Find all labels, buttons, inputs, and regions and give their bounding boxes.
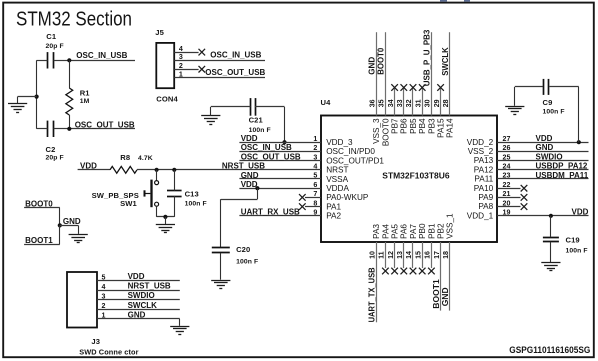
svg-text:OSC_OUT_USB: OSC_OUT_USB <box>205 68 265 77</box>
node BOOT junction <box>58 223 62 227</box>
wire pin 35 <box>385 32 387 115</box>
svg-text:U4: U4 <box>321 98 332 107</box>
pin name PB1 <box>427 223 436 239</box>
svg-text:1: 1 <box>102 312 106 320</box>
svg-text:SWDIO: SWDIO <box>128 291 155 300</box>
wire BOOT to ground <box>60 225 79 234</box>
svg-text:7: 7 <box>313 190 317 198</box>
pin name PB3 <box>427 118 436 134</box>
connector J5 CON4 <box>155 28 178 103</box>
svg-text:J5: J5 <box>155 28 164 37</box>
capacitor C2 <box>37 121 70 162</box>
pin 2 of J5 (no connect) <box>174 62 198 70</box>
pin number 15 <box>414 251 422 259</box>
capacitor C19 <box>543 216 588 262</box>
pin 13 stub (no connect) <box>403 242 405 268</box>
wire pin 19 <box>497 209 589 217</box>
svg-text:PA7: PA7 <box>409 224 418 239</box>
label SWCLK pin28 <box>441 47 450 76</box>
pin number 13 <box>396 251 404 259</box>
label USB_P_U_PB3 pin30 <box>423 29 432 86</box>
wire VDD pin6 to C20 <box>221 188 258 248</box>
resistor R1 <box>66 60 90 129</box>
svg-text:BOOT0: BOOT0 <box>377 47 386 75</box>
pin 21 stub (no connect) <box>497 190 521 198</box>
wire OSC_IN_USB net <box>69 60 135 62</box>
pin number 17 <box>433 251 441 259</box>
wire pin 27 <box>497 135 589 143</box>
svg-text:VSS_3: VSS_3 <box>372 118 381 144</box>
wire pin 23 <box>497 172 589 180</box>
pin name VSS_2 <box>468 147 494 156</box>
svg-text:GSPG1101161605SG: GSPG1101161605SG <box>509 345 590 355</box>
svg-text:J3: J3 <box>91 337 100 346</box>
ground C20 <box>211 281 230 289</box>
node junction C13 <box>172 168 176 172</box>
svg-text:UART_RX_USB: UART_RX_USB <box>241 208 300 217</box>
label OSC_IN_USB at J5 <box>210 51 261 60</box>
svg-text:PB2: PB2 <box>437 223 446 239</box>
wire J5 pin 3 OSC_IN_USB <box>174 53 265 61</box>
no-connect X on pin 7 <box>299 194 306 201</box>
svg-text:33: 33 <box>396 99 404 107</box>
svg-text:35: 35 <box>378 99 386 107</box>
node VDD junction pin27 <box>577 140 581 144</box>
wire ground tap <box>18 97 37 104</box>
svg-text:SWCLK: SWCLK <box>441 47 450 76</box>
svg-text:NRST_USB: NRST_USB <box>222 161 265 170</box>
wire pin 10 UART_TX_USB <box>376 242 378 322</box>
pin 32 stub (no connect) <box>412 88 414 116</box>
svg-text:PA8: PA8 <box>478 202 493 211</box>
pin 31 stub (no connect) <box>422 88 424 116</box>
wire pin 28 <box>449 32 451 115</box>
svg-text:2: 2 <box>313 144 317 152</box>
svg-text:17: 17 <box>433 251 441 259</box>
svg-text:PA5: PA5 <box>391 224 400 239</box>
label USBDM_PA11 pin23 <box>536 171 589 180</box>
pin name PA13 <box>474 156 494 165</box>
wire SW1/C13 bottom join <box>157 216 175 218</box>
pin name OSC_OUT/PD1 <box>326 156 384 165</box>
svg-text:2: 2 <box>102 302 106 310</box>
svg-text:VDD: VDD <box>241 134 258 143</box>
svg-text:NRST_USB: NRST_USB <box>128 282 171 291</box>
pin name PA12 <box>474 165 494 174</box>
svg-text:C21: C21 <box>249 115 264 124</box>
no-connect X on pin 22 <box>521 185 528 192</box>
svg-text:5: 5 <box>313 172 317 180</box>
no-connect X on pin 13 <box>401 268 408 275</box>
svg-text:PA9: PA9 <box>478 193 493 202</box>
svg-text:CON4: CON4 <box>156 95 178 104</box>
pin name VSS_1 <box>446 213 455 239</box>
svg-text:29: 29 <box>433 99 441 107</box>
pin name PB0 <box>418 223 427 239</box>
svg-text:SWCLK: SWCLK <box>128 301 158 310</box>
pin number 31 <box>414 99 422 107</box>
no-connect X on pin 15 <box>419 268 426 275</box>
svg-text:GND: GND <box>128 310 146 319</box>
pin name PA15 <box>437 118 446 138</box>
pin 8 stub (no connect) <box>305 199 321 207</box>
no-connect X on pin 20 <box>521 203 528 210</box>
svg-text:OSC_IN_USB: OSC_IN_USB <box>210 51 261 60</box>
no-connect X on pin 8 <box>299 203 306 210</box>
ground SW1/C13 <box>156 225 175 233</box>
wire pin 18 GND <box>449 242 451 311</box>
svg-text:PA2: PA2 <box>326 212 341 221</box>
svg-text:24: 24 <box>503 163 511 171</box>
svg-text:PA13: PA13 <box>474 156 494 165</box>
svg-text:PB4: PB4 <box>418 118 427 134</box>
no-connect X on pin 14 <box>410 268 417 275</box>
svg-text:PA4: PA4 <box>381 224 390 239</box>
svg-text:28: 28 <box>442 99 450 107</box>
label OSC_OUT_USB <box>75 121 135 130</box>
label BOOT1 <box>25 236 53 245</box>
wire OSC_OUT_USB net <box>69 128 135 130</box>
pin 11 stub (no connect) <box>385 242 387 268</box>
wire pin 6 <box>239 181 321 189</box>
svg-text:VSS_2: VSS_2 <box>468 147 494 156</box>
pin name PA14 <box>446 118 455 138</box>
pin number 28 <box>442 99 450 107</box>
label OSC_IN_USB pin2 <box>241 143 292 152</box>
pin name PA9 <box>478 193 493 202</box>
no-connect X on pin 12 <box>391 268 398 275</box>
svg-text:VDD_3: VDD_3 <box>326 138 353 147</box>
svg-text:PA0-WKUP: PA0-WKUP <box>326 193 369 202</box>
svg-text:22: 22 <box>503 181 511 189</box>
pin number 30 <box>424 99 432 107</box>
label OSC_IN_USB <box>76 51 127 60</box>
no-connect X on J5 pin 2 <box>199 66 206 73</box>
capacitor C21 <box>211 98 285 134</box>
label GND pin5 <box>241 171 259 180</box>
wire pin 25 <box>497 153 589 161</box>
switch SW1 SW_PB_SPS <box>92 170 159 217</box>
svg-text:VDD: VDD <box>572 208 589 217</box>
svg-text:C1: C1 <box>46 32 57 41</box>
wire pin 9 <box>239 209 321 217</box>
svg-text:SW1: SW1 <box>120 199 137 208</box>
svg-text:PB0: PB0 <box>418 223 427 239</box>
label VDD pin27 <box>536 134 553 143</box>
wire to ground <box>165 217 167 224</box>
node ground tap junction <box>35 95 39 99</box>
capacitor C9 <box>515 79 579 116</box>
wire BOOT1 <box>24 225 60 244</box>
pin name PA5 <box>391 224 400 239</box>
pin name OSC_IN/PD0 <box>326 147 375 156</box>
op-amp U4 body (STM32F103T8U6) <box>321 98 498 242</box>
svg-text:27: 27 <box>503 135 511 143</box>
svg-text:10: 10 <box>368 251 376 259</box>
wire J3 pin 4 NRST_USB <box>97 283 180 291</box>
svg-text:NRST: NRST <box>326 166 348 175</box>
svg-text:C2: C2 <box>46 145 56 154</box>
pin 34 stub (no connect) <box>394 88 396 116</box>
pin name PA1 <box>326 202 341 211</box>
svg-text:4: 4 <box>102 283 106 291</box>
ground oscillator <box>8 104 27 113</box>
label GND pin18 <box>441 287 450 306</box>
svg-text:BOOT1: BOOT1 <box>25 236 53 245</box>
svg-text:GND: GND <box>63 217 81 226</box>
pin name PB4 <box>418 118 427 134</box>
label SWCLK at J3 <box>128 301 158 310</box>
svg-text:SWD Conne ctor: SWD Conne ctor <box>79 348 138 357</box>
svg-text:VDD: VDD <box>536 134 553 143</box>
pin name PA7 <box>409 224 418 239</box>
svg-text:OSC_OUT_USB: OSC_OUT_USB <box>75 121 135 130</box>
svg-text:PA14: PA14 <box>446 118 455 138</box>
pin number 11 <box>378 251 386 259</box>
node VDD junction pin1 <box>282 140 286 144</box>
svg-text:BOOT0: BOOT0 <box>381 118 390 146</box>
svg-text:4: 4 <box>179 45 183 53</box>
pin number 34 <box>387 99 395 107</box>
node OSC_IN_USB junction <box>67 58 71 62</box>
pin 20 stub (no connect) <box>497 199 521 207</box>
resistor R8 <box>110 153 153 173</box>
wire R8 to U4 pin4 (NRST_USB) <box>137 163 321 171</box>
wire pin 17 BOOT1 <box>440 242 442 311</box>
svg-text:1: 1 <box>313 135 317 143</box>
svg-text:PA11: PA11 <box>474 175 493 184</box>
svg-text:100n F: 100n F <box>543 109 565 116</box>
svg-text:PA15: PA15 <box>437 118 446 138</box>
connector J3 SWD <box>67 272 139 357</box>
svg-text:15: 15 <box>414 251 422 259</box>
ground C21 <box>201 107 220 125</box>
svg-text:VDDA: VDDA <box>326 184 349 193</box>
svg-text:11: 11 <box>378 251 386 259</box>
svg-text:C20: C20 <box>236 245 250 254</box>
svg-text:USB_P_U_PB3: USB_P_U_PB3 <box>423 29 432 86</box>
pin number 35 <box>378 99 386 107</box>
label SWDIO at J3 <box>128 291 155 300</box>
pin 33 stub (no connect) <box>403 88 405 116</box>
svg-text:USBDM_PA11: USBDM_PA11 <box>536 171 589 180</box>
svg-text:OSC_IN_USB: OSC_IN_USB <box>241 143 292 152</box>
svg-text:1: 1 <box>179 70 183 78</box>
svg-text:GND: GND <box>367 57 376 75</box>
no-connect X on pin 34 <box>391 84 398 91</box>
wire J3 pin 2 SWCLK <box>97 302 180 310</box>
pin 22 stub (no connect) <box>497 181 521 189</box>
no-connect X on pin 11 <box>382 268 389 275</box>
wire pin 2 <box>239 144 321 152</box>
pin 12 stub (no connect) <box>394 242 396 268</box>
svg-text:100n F: 100n F <box>185 200 207 207</box>
label USBDP_PA12 pin24 <box>536 162 588 171</box>
label GND pin26 <box>536 143 554 152</box>
no-connect X on pin 29 <box>437 84 444 91</box>
svg-text:1M: 1M <box>80 98 90 105</box>
no-connect X on pin 31 <box>419 84 426 91</box>
pin number 36 <box>368 99 376 107</box>
svg-text:18: 18 <box>442 251 450 259</box>
wire J3 pin 1 GND <box>97 312 180 320</box>
wire J3 pin 3 SWDIO <box>97 293 180 301</box>
pin number 12 <box>387 251 395 259</box>
label OSC_OUT_USB at J5 <box>205 68 265 77</box>
pin name PA10 <box>474 184 494 193</box>
capacitor C13 <box>167 170 207 217</box>
pin name VDD_2 <box>467 138 494 147</box>
svg-text:34: 34 <box>387 99 395 107</box>
pin name VDD_1 <box>467 211 494 220</box>
label GND pin36 <box>367 57 376 75</box>
wire pin 30 <box>431 32 433 115</box>
svg-text:3: 3 <box>179 53 183 61</box>
svg-text:12: 12 <box>387 251 395 259</box>
svg-text:20: 20 <box>503 199 511 207</box>
pin number 14 <box>405 251 413 259</box>
svg-text:BOOT1: BOOT1 <box>432 279 441 309</box>
label GND at BOOT <box>63 217 81 226</box>
label BOOT0 <box>25 199 53 208</box>
svg-text:PB6: PB6 <box>400 118 409 134</box>
pin name PA2 <box>326 212 341 221</box>
svg-text:C13: C13 <box>185 190 199 199</box>
svg-text:13: 13 <box>396 251 404 259</box>
svg-text:OSC_IN_USB: OSC_IN_USB <box>76 51 127 60</box>
label VDD pin19 <box>572 208 589 217</box>
label VDD at R8 <box>80 162 97 171</box>
svg-text:3: 3 <box>313 153 317 161</box>
wire pin 26 <box>497 144 589 152</box>
ground C19 <box>541 263 560 271</box>
svg-text:100n F: 100n F <box>249 127 271 134</box>
svg-text:20p F: 20p F <box>46 43 64 50</box>
wire BOOT0 <box>24 208 60 226</box>
svg-text:C9: C9 <box>543 98 553 107</box>
pin 4 of J5 (no connect) <box>174 45 198 53</box>
pin name PB7 <box>391 118 400 134</box>
svg-text:25: 25 <box>503 153 511 161</box>
label UART_TX_USB <box>368 267 377 322</box>
wire pin 5 <box>239 172 321 180</box>
no-connect X on J5 pin 4 <box>199 49 206 56</box>
svg-text:20p F: 20p F <box>46 155 64 162</box>
pin number 33 <box>396 99 404 107</box>
svg-text:5: 5 <box>102 273 106 281</box>
label NRST_USB <box>222 161 265 170</box>
capacitor C1 <box>37 32 70 69</box>
label BOOT1 pin17 <box>432 279 441 309</box>
label GND at J3 <box>128 310 146 319</box>
pin name PA0-WKUP <box>326 193 369 202</box>
label SWDIO pin25 <box>536 152 563 161</box>
label UART_RX_USB pin9 <box>241 208 300 217</box>
no-connect X on pin 16 <box>428 268 435 275</box>
svg-text:100n F: 100n F <box>566 247 588 254</box>
svg-text:2: 2 <box>179 62 183 70</box>
wire C21 to VDD pin1 <box>284 107 286 142</box>
svg-text:PB7: PB7 <box>391 118 400 134</box>
label VDD pin6 <box>241 180 258 189</box>
pin name PA4 <box>381 224 390 239</box>
wire pin 3 <box>239 153 321 161</box>
pin number 29 <box>433 99 441 107</box>
node VDD junction pin19 <box>549 214 553 218</box>
pin number 10 <box>368 251 376 259</box>
svg-text:31: 31 <box>414 99 422 107</box>
wire pin 1 <box>239 135 321 143</box>
svg-text:VSSA: VSSA <box>326 175 348 184</box>
label NRST_USB at J3 <box>128 282 171 291</box>
svg-text:PB1: PB1 <box>427 223 436 239</box>
svg-text:VDD_2: VDD_2 <box>467 138 494 147</box>
label VDD at J3 <box>128 272 145 281</box>
no-connect X on pin 33 <box>401 84 408 91</box>
wire pin 36 <box>376 32 378 115</box>
pin name PB5 <box>409 118 418 134</box>
svg-text:GND: GND <box>241 171 259 180</box>
label VDD pin1 <box>241 134 258 143</box>
ground C9 <box>505 107 524 115</box>
pin name VDDA <box>326 184 349 193</box>
svg-text:8: 8 <box>313 199 317 207</box>
svg-text:3: 3 <box>102 293 106 301</box>
node VDD pin6 junction <box>255 186 259 190</box>
wire pin 24 <box>497 163 589 171</box>
no-connect X on pin 32 <box>410 84 417 91</box>
svg-text:VDD_1: VDD_1 <box>467 211 494 220</box>
pin name VDD_3 <box>326 138 353 147</box>
pin 14 stub (no connect) <box>412 242 414 268</box>
wire left oscillator rail <box>36 60 38 129</box>
pin name PB2 <box>437 223 446 239</box>
svg-text:PB3: PB3 <box>427 118 436 134</box>
svg-text:PB5: PB5 <box>409 118 418 134</box>
svg-text:R1: R1 <box>80 89 91 98</box>
pin 15 stub (no connect) <box>422 242 424 268</box>
pin name PB6 <box>400 118 409 134</box>
wire C9 to VDD pin27 <box>578 87 580 142</box>
svg-text:30: 30 <box>424 99 432 107</box>
svg-text:4: 4 <box>313 163 317 171</box>
wire C20 to ground <box>220 253 222 280</box>
svg-text:OSC_OUT/PD1: OSC_OUT/PD1 <box>326 156 384 165</box>
wire C9 to ground <box>514 87 516 106</box>
wire J5 pin 1 OSC_OUT_USB <box>174 70 265 78</box>
svg-text:USBDP_PA12: USBDP_PA12 <box>536 162 588 171</box>
svg-text:26: 26 <box>503 144 511 152</box>
svg-text:32: 32 <box>405 99 413 107</box>
label BOOT0 pin35 <box>377 47 386 75</box>
svg-text:C19: C19 <box>566 235 580 244</box>
node junction SW1 <box>155 168 159 172</box>
pin name NRST <box>326 166 348 175</box>
svg-text:100n F: 100n F <box>236 259 258 266</box>
wire J3 GND to ground <box>179 319 181 326</box>
ground J3 <box>170 327 189 335</box>
ground BOOT <box>69 235 88 243</box>
svg-text:4.7K: 4.7K <box>138 155 153 162</box>
svg-text:GND: GND <box>536 143 554 152</box>
pin name PA6 <box>400 224 409 239</box>
pin 16 stub (no connect) <box>431 242 433 268</box>
svg-text:21: 21 <box>503 190 511 198</box>
svg-text:OSC_OUT_USB: OSC_OUT_USB <box>241 152 301 161</box>
pin name PA3 <box>372 224 381 239</box>
svg-text:PA10: PA10 <box>474 184 494 193</box>
svg-text:6: 6 <box>313 181 317 189</box>
